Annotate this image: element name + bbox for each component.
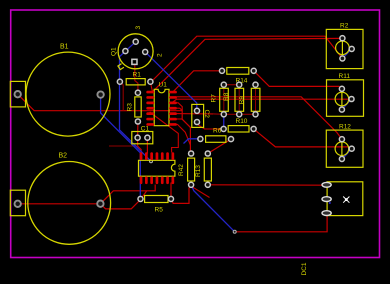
DC jack DC1 outline [327,182,363,216]
wire: R14 right pad down-right to R11 top pad [254,71,342,89]
resistor R1 body [126,79,145,85]
R9 bottom pad [237,112,242,117]
resistor R5 body [145,196,168,203]
R5 right pad [168,196,173,201]
wire: blue stub at DC1 middle pad [329,202,331,204]
wire: dark horizontal into U2 pin1 [109,145,138,147]
wire: U1 pad1R to R14 left pad [173,71,222,92]
Q1 left pad [123,49,128,54]
svg-text:U1: U1 [159,82,168,89]
svg-text:R1: R1 [133,72,142,79]
wire: stub diagonal from R42 bottom pad [193,187,210,197]
wire: U1 pad2R rail to R11 right pad [173,97,342,139]
op-amp U1 (DIP-14) body [154,89,169,125]
R10 top pad [253,82,258,87]
battery B2 outline [28,162,111,245]
battery B2 tab [10,190,25,216]
svg-text:R11: R11 [339,73,351,80]
potentiometer R12 outline [326,130,363,167]
Q1 right pad [143,49,148,54]
R4 right pad [228,137,233,142]
wire: R4 right pad to R13 top pad [208,139,231,153]
battery B2 tab pad [15,201,21,207]
R13 bottom pad [205,182,210,187]
capacitor C2 body [192,104,204,127]
svg-text:R2: R2 [340,23,349,30]
battery B1 tab [10,81,25,107]
R6 right pad [251,126,256,131]
resistor R13 body [204,158,211,181]
wire: blue from B1 inner pad diagonally to U2 pin1 column [101,95,141,199]
U2 bottom pads [140,176,175,184]
wire: R3 bottom pad down to C1 left pad [137,122,139,138]
R42 top pad [189,151,194,156]
R11 screw circle [335,92,349,106]
R8 top pad [221,82,226,87]
R11 bottom pad [339,107,344,112]
R6 left pad [221,126,226,131]
wire: R1 right pad up-right to R2 bottom pad (top rail y=36) [150,36,343,83]
wire: bundle vertical right of U1 down to R42 top pad [182,106,190,153]
wire: B2 pad upper route to U2 pin4 [100,185,155,204]
wire: R5 right pad up to U2 pin7 bottom [170,183,172,199]
svg-text:R7: R7 [211,94,218,103]
resistor R9 body [235,88,244,111]
wire: U1 pad3R elbow into bundle [173,103,182,107]
wire: C2 bottom pad to R6 left pad [197,122,224,129]
wire: blue horizontal into R4 left pad [184,139,201,144]
wire: U1 area up-right to R2 top pad (rail y=39.3) [153,38,343,91]
potentiometer R11 outline [327,80,364,117]
wire: trace crossing U1 body diagonally to U2 pin7 [150,112,179,153]
svg-text:R8: R8 [223,92,230,101]
wire: rail y=99.2 below previous [173,99,352,102]
R14 right pad [251,68,256,73]
R8 bottom pad [221,112,226,117]
C2 bottom pad [194,119,199,124]
R2 bottom pad [340,56,345,61]
via near DC1 [233,230,236,233]
wire: branch down to R5 left pad [141,191,147,199]
svg-text:R10: R10 [236,118,248,125]
R1 right pad [148,79,153,84]
R10 bottom pad [253,112,258,117]
svg-text:C2: C2 [203,110,210,119]
Q1 top pad [133,39,138,44]
R2 screw circle [336,41,350,55]
wire: blue R8 bottom pad to R6 left pad [223,116,225,127]
battery B1 tab pad [15,91,21,97]
wire: blue from Q1 right pad to C2 top pad [145,52,197,111]
U2 top pads [140,152,175,160]
R3 top pad [135,90,140,95]
DC1 X mounting marker [343,197,349,203]
wire: R1 left pad dark vertical to rail [120,82,123,111]
wire: R10 body inner vertical (dark red) [255,88,257,111]
wire: B1 tab to long horizontal net y=110.7 [18,94,183,111]
svg-text:2: 2 [157,53,164,57]
resistor R3 body [135,97,141,117]
wire: C1 right pad down to U2 pin2 [146,138,148,154]
wire: blue from Q1 top+left pads down left side [120,42,152,162]
resistor R4 body [206,136,226,143]
U1 left pads [146,91,154,126]
resistor R42 body [188,158,195,181]
R3 bottom pad [135,119,140,124]
wire: R8 body inner vertical (dark red) [223,88,225,111]
U1 right pads [169,91,177,126]
wire: blue R12 right pad to bottom pad [342,149,351,159]
R5 left pad [138,196,143,201]
R42 bottom pad [189,182,194,187]
DC1 pad 1 oval [322,182,331,187]
svg-text:3: 3 [135,26,142,30]
C1 left pad [135,135,140,140]
wire: R5 right pad jog to R42 bottom pad [171,185,191,204]
wire: blue R11 right pad to bottom pad [342,99,352,110]
R11 right pad [349,96,354,101]
wire: U1 pad4R elbow into bundle [173,108,182,110]
C2 top pad [194,108,199,113]
wire: via to DC1 bottom oval along bottom [235,213,327,232]
R12 right pad [349,146,354,151]
resistor R14 body [227,68,249,75]
R11 top pad [339,86,344,91]
R14 left pad [219,68,224,73]
battery B1 outline [26,52,110,136]
wire: R9 body inner vertical (dark red) [238,88,240,111]
resistor R10 body (third vertical) [251,88,260,111]
svg-text:R3: R3 [127,103,134,112]
R12 bottom pad [339,156,344,161]
wire: Q1 square pad down to R3 top pad [135,64,138,93]
wire: B2 pad lower route to R5 left pad [100,200,140,209]
R4 left pad [198,136,203,141]
battery B1 inner pad [97,91,103,97]
via at end of blue diagonal [150,160,153,163]
svg-text:Q1: Q1 [111,47,118,56]
wire: B2 tab through pad to R5 left pad [18,203,101,205]
wire: blue R2 right pad to bottom pad [342,49,351,59]
R12 screw circle [335,142,349,156]
R2 top pad [340,36,345,41]
wire: R1 right pad stub into U1 pin1 [150,82,152,92]
svg-text:R5: R5 [155,207,164,214]
R9 top pad [237,82,242,87]
R1 left pad [117,79,122,84]
R13 top pad [205,151,210,156]
wire: cluster top pads link (dark red) [224,84,239,86]
R12 top pad [339,137,344,142]
wire: R13 bottom pad to DC1 top oval [208,184,327,186]
svg-text:R12: R12 [339,124,351,131]
svg-text:B1: B1 [60,44,69,51]
svg-text:C1: C1 [141,126,150,133]
Q1 square pad pin1 [132,59,137,64]
R2 right pad [349,46,354,51]
wire: C1 left pad down to U2 pin1 [138,138,142,154]
C1 right pad [145,135,150,140]
capacitor C1 body [132,132,153,144]
wire: U1 pad6R elbow to bundle diagonal [173,118,182,120]
svg-text:B2: B2 [59,153,68,160]
svg-text:R13: R13 [195,165,202,177]
wire: R6 right pad to R12 right pad [254,129,352,149]
wire: cluster bottom pads row (dark red) [213,113,256,115]
resistor R6 body [228,126,249,132]
wire: U1 pad5R across to resistor cluster bottom row (dark) [173,113,213,115]
DC1 pad 2 oval [322,197,331,202]
IC U2 (DIP-14 horizontal) body [139,160,175,176]
transistor Q1 outline with tab [118,34,153,70]
wire: blue R42 bottom pad to via near DC1 [191,185,235,232]
DC1 pad 3 oval [322,211,331,216]
svg-text:R9: R9 [239,96,246,105]
svg-text:R42: R42 [178,164,185,176]
resistor R8 body [220,88,229,111]
potentiometer R2 outline [326,29,363,68]
battery B2 inner pad [97,201,103,207]
svg-text:DC1: DC1 [301,262,308,275]
wire: U1 pad7R diagonal down to R42 top pad [173,124,191,145]
